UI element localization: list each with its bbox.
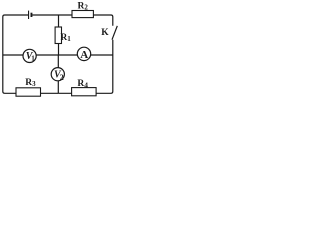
resistor R4 box: [72, 88, 97, 96]
resistor R2 box: [72, 11, 93, 18]
svg-text:A: A: [80, 49, 88, 61]
svg-text:R1: R1: [60, 33, 71, 43]
voltmeter V1: [23, 49, 36, 62]
resistor R1 box: [55, 27, 61, 44]
svg-text:R2: R2: [78, 1, 89, 11]
svg-text:2: 2: [60, 73, 64, 82]
wire: middle horizontal wire: [3, 54, 113, 56]
switch K blade: [112, 26, 117, 40]
voltmeter V2: [51, 68, 64, 83]
ammeter A: [77, 47, 90, 61]
wire: lower left border and bottom-left wire: [3, 55, 59, 93]
svg-text:1: 1: [31, 55, 35, 63]
wire: V2 branch vertical: [57, 55, 59, 93]
svg-text:R4: R4: [77, 79, 88, 89]
svg-text:K: K: [101, 28, 109, 38]
wire: top-middle segment, top-right corner, switch top stub: [32, 15, 113, 26]
svg-text:R3: R3: [25, 78, 36, 88]
battery long plate: [28, 11, 29, 19]
background: [0, 0, 120, 102]
wire: bottom-right wire and lower right border: [58, 40, 112, 94]
wire: top-left segment and upper left border: [3, 15, 29, 55]
resistor R3 box: [16, 88, 41, 96]
battery short thick plate: [31, 13, 33, 17]
wire: R1 branch vertical: [58, 15, 60, 55]
